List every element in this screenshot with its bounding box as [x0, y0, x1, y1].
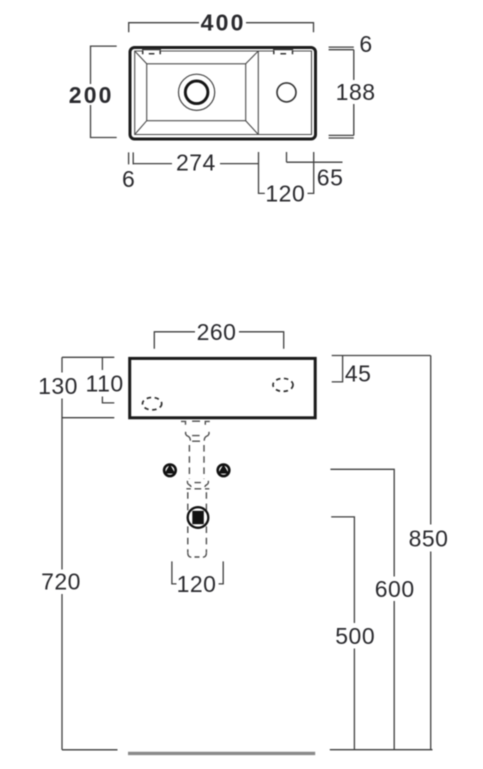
- svg-text:500: 500: [335, 623, 375, 649]
- svg-text:6: 6: [122, 166, 135, 192]
- svg-text:6: 6: [359, 31, 372, 57]
- svg-text:120: 120: [265, 181, 305, 207]
- svg-text:65: 65: [317, 165, 344, 191]
- svg-text:720: 720: [41, 569, 81, 595]
- svg-text:110: 110: [86, 370, 124, 396]
- svg-text:45: 45: [345, 361, 372, 387]
- svg-text:600: 600: [375, 576, 415, 602]
- svg-text:200: 200: [69, 82, 114, 108]
- svg-text:188: 188: [336, 79, 376, 105]
- svg-text:120: 120: [177, 571, 217, 597]
- svg-text:130: 130: [38, 373, 78, 399]
- svg-text:850: 850: [409, 526, 449, 552]
- svg-text:400: 400: [201, 10, 246, 36]
- svg-text:274: 274: [176, 150, 216, 176]
- svg-text:260: 260: [197, 319, 237, 345]
